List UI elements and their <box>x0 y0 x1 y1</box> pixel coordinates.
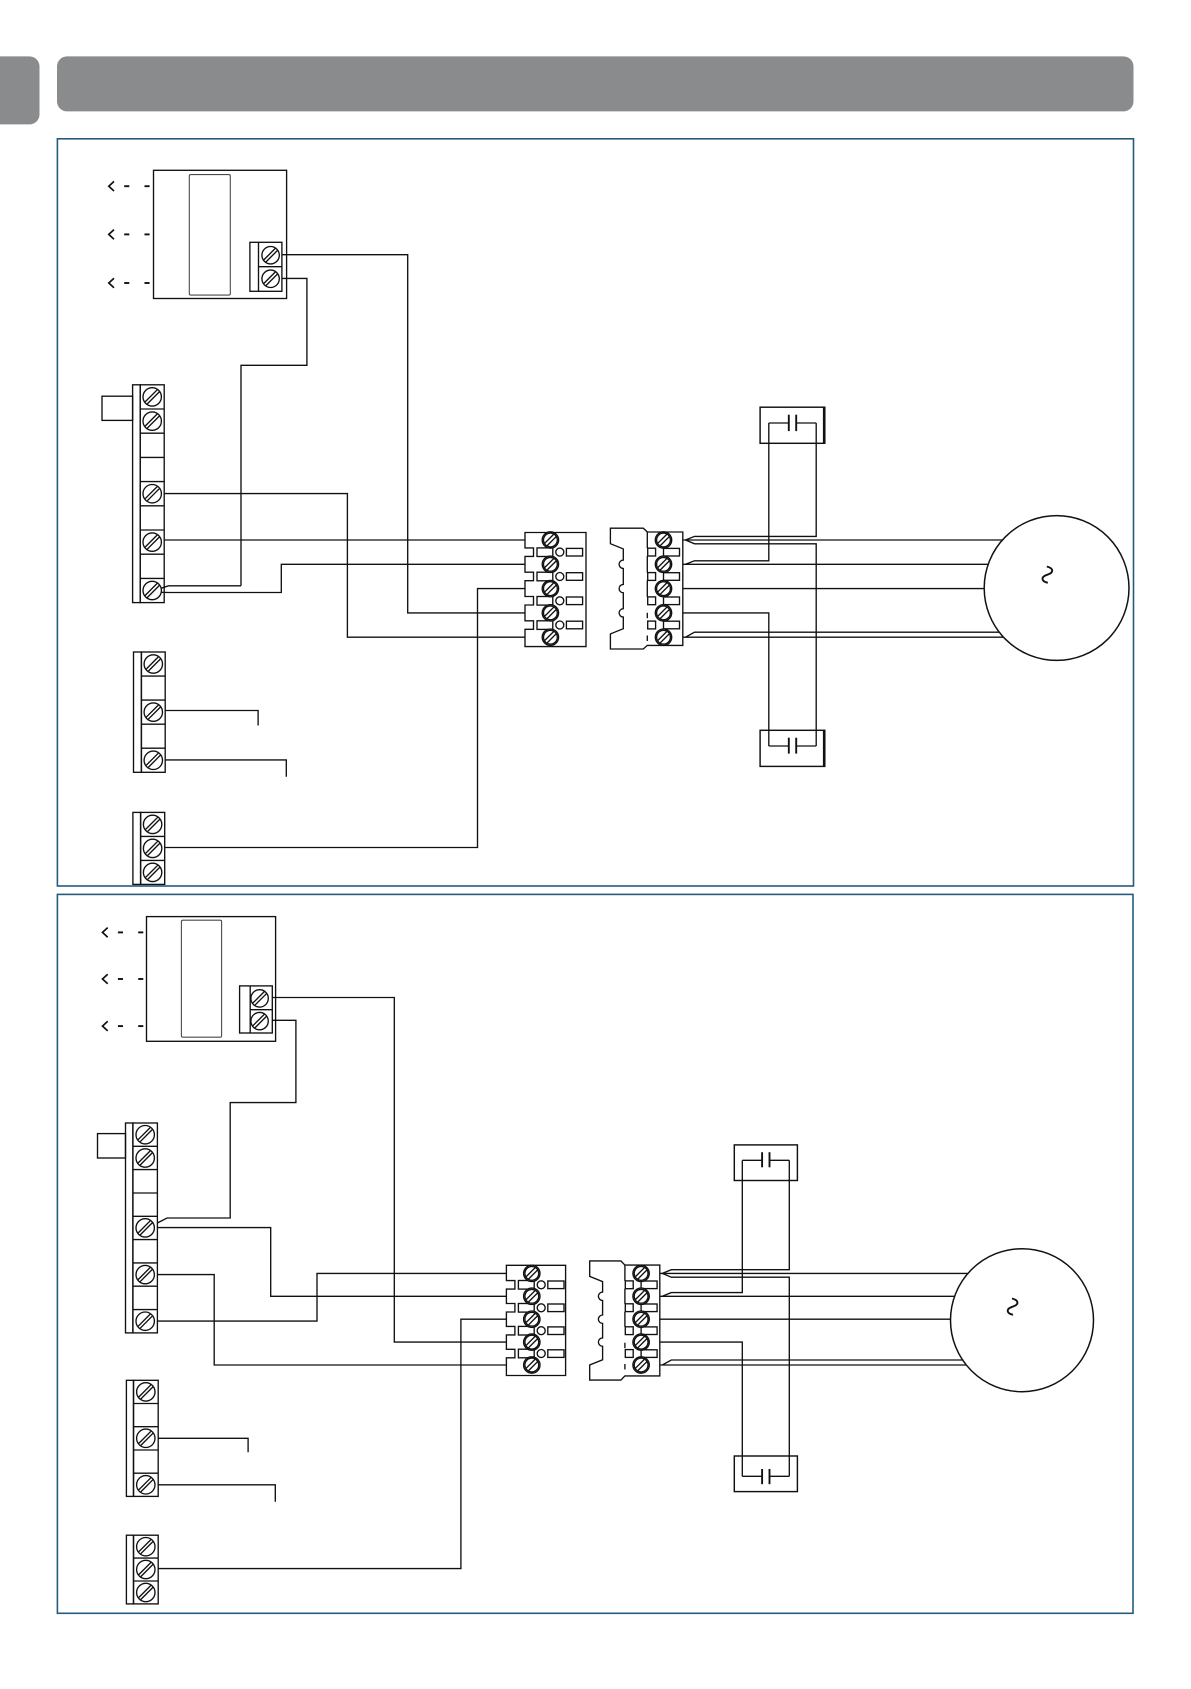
screw terminal X1.7 <box>143 533 161 551</box>
wire stub: X2.3 <box>165 711 258 726</box>
screw terminal A1.1 <box>262 247 279 264</box>
diagram frame 2 <box>57 894 1133 1613</box>
screw terminal X9.5 <box>524 1357 540 1373</box>
terminal strip X6 <box>98 1123 158 1333</box>
capacitor C3 (suppressor) <box>734 1145 797 1181</box>
screw terminal X7.3 <box>137 1429 155 1447</box>
capacitor C2 (suppressor) <box>760 730 825 766</box>
wire: A1 terminal 2 to strip X1 terminal 9 <box>241 278 307 585</box>
terminal strip X3 <box>133 812 165 884</box>
wire: X10 row 5 upper to motor M2 <box>662 1360 963 1365</box>
terminal strip X1 <box>102 385 164 603</box>
screw terminal X6.9 <box>136 1312 154 1330</box>
screw terminal X9.3 <box>524 1311 540 1327</box>
display window of A2 <box>181 920 221 1037</box>
wire: X1.7 to connector X4 row 1 <box>164 539 525 541</box>
wire: X5 row 5 to motor M1 <box>683 636 1004 638</box>
screw terminal X8.2 <box>137 1560 155 1578</box>
wire: X1.9 to connector X4 row 2 <box>161 564 525 592</box>
wire: X5 row 5 upper to motor M1 <box>686 632 1000 637</box>
screw terminal X1.2 <box>143 412 161 430</box>
screw terminal X2.5 <box>144 751 162 769</box>
screw terminal X8.1 <box>137 1538 155 1556</box>
input arrow 2 of A2 <box>103 974 108 984</box>
wire: X1.5 to connector X4 row 5 <box>164 494 525 638</box>
wire: X5 row 3 to motor M1 <box>683 588 984 590</box>
AC symbol in motor M1 <box>1042 567 1052 583</box>
screw terminal X9.1 <box>524 1265 540 1281</box>
wire stub: X7.3 <box>158 1438 248 1452</box>
screw terminal X10.4 <box>633 1334 649 1350</box>
screw terminal A2.2 <box>251 1012 268 1029</box>
connector socket X5 (motor side) <box>610 528 682 649</box>
screw terminal X2.1 <box>144 655 162 673</box>
screw terminal X9.2 <box>524 1288 540 1304</box>
wire: A2 terminal 1 to connector X9 row 4 <box>272 998 506 1343</box>
screw terminal X7.1 <box>137 1383 155 1401</box>
input arrow 3 of A2 <box>103 1021 108 1031</box>
screw terminal X1.9 <box>143 581 161 599</box>
screw terminal A1.2 <box>262 270 279 287</box>
screw terminal X6.1 <box>136 1126 154 1144</box>
screw terminal X5.1 <box>655 532 671 548</box>
AC symbol in motor M2 <box>1008 1299 1018 1315</box>
wire: X10 row 3 to motor M2 <box>660 1318 951 1320</box>
wire: X8.2 to connector X9 row 3 <box>158 1319 506 1568</box>
motor M2 <box>951 1249 1094 1392</box>
screw terminal X10.2 <box>633 1288 649 1304</box>
wire: X10 row 2 to capacitor C3 <box>662 1181 742 1297</box>
screw terminal X4.3 <box>542 580 558 596</box>
wire: X10 row 4 to capacitor C4 <box>660 1342 743 1456</box>
terminal strip X7 <box>126 1380 158 1496</box>
screw terminal X10.5 <box>633 1357 649 1373</box>
screw terminal X4.5 <box>542 629 558 645</box>
control unit A1 (timer/programmer) <box>109 170 287 298</box>
screw terminal X8.3 <box>137 1583 155 1601</box>
wire: X5 row 1 to capacitor C1 <box>686 443 817 540</box>
wire: A2 terminal 2 to strip X6 terminal 5 <box>157 1020 296 1223</box>
capacitor C4 (suppressor) <box>734 1456 797 1492</box>
wire stub: X7.5 <box>158 1485 275 1502</box>
wire: X1.9 to A1 wire junction <box>161 586 241 589</box>
screw terminal X1.1 <box>143 388 161 406</box>
capacitor C1 (suppressor) <box>760 407 825 443</box>
wire: X6.5 to connector X9 row 2 <box>157 1228 506 1297</box>
input arrow 1 of A2 <box>103 928 108 938</box>
screw terminal X4.4 <box>542 605 558 621</box>
wire: X5 row 2 to motor M1 <box>683 563 988 565</box>
screw terminal X10.1 <box>633 1265 649 1281</box>
motor M1 <box>984 516 1129 661</box>
mounting tab of X6 <box>98 1134 126 1158</box>
wire: X5 row 1 to capacitor C2 <box>686 540 817 730</box>
input arrow 3 of A1 <box>109 278 114 288</box>
screw terminal X4.2 <box>542 556 558 572</box>
screw terminal X3.2 <box>143 839 161 857</box>
terminal block of A1 <box>250 242 282 291</box>
screw terminal X9.4 <box>524 1334 540 1350</box>
wire: X6.7 to connector X9 row 5 <box>157 1275 506 1365</box>
screw terminal X5.2 <box>655 556 671 572</box>
connector plug X9 (cable side) <box>506 1265 565 1375</box>
wire: X5 row 2 to capacitor C1 <box>686 443 769 564</box>
wire: A1 terminal 1 to connector X4 row 4 <box>282 255 525 613</box>
connector socket X10 (motor side) <box>590 1261 660 1380</box>
screw terminal X7.5 <box>137 1476 155 1494</box>
screw terminal X10.3 <box>633 1311 649 1327</box>
control unit A2 (timer/programmer) <box>103 917 276 1042</box>
screw terminal X5.5 <box>655 629 671 645</box>
wire: X10 row 1 to motor M2 <box>660 1272 968 1274</box>
mounting tab of X1 <box>102 396 133 420</box>
screw terminal X3.1 <box>143 815 161 833</box>
wire: X5 row 1 to motor M1 <box>683 539 1003 541</box>
display window of A1 <box>189 175 230 296</box>
diagram frame 1 <box>57 139 1133 886</box>
wire: X10 row 1 to capacitor C4 <box>662 1273 789 1456</box>
screw terminal X6.5 <box>136 1219 154 1237</box>
header chapter tab <box>0 56 40 124</box>
terminal strip X8 <box>126 1535 158 1604</box>
input arrow 2 of A1 <box>109 230 114 240</box>
header title bar <box>57 56 1134 111</box>
screw terminal X2.3 <box>144 703 162 721</box>
screw terminal X4.1 <box>542 532 558 548</box>
screw terminal X6.7 <box>136 1265 154 1283</box>
wire: X10 row 5 to motor M2 <box>660 1364 967 1366</box>
input arrow 1 of A1 <box>109 181 114 191</box>
screw terminal X1.5 <box>143 485 161 503</box>
connector plug X4 (cable side) <box>525 532 586 647</box>
terminal strip X2 <box>134 652 166 772</box>
wire: X10 row 1 to capacitor C3 <box>662 1181 789 1274</box>
screw terminal X6.2 <box>136 1149 154 1167</box>
wire: X5 row 4 to capacitor C2 <box>683 613 769 730</box>
wire: X3.2 to connector X4 row 3 <box>165 589 525 848</box>
wire: X10 row 2 to motor M2 <box>660 1295 955 1297</box>
screw terminal X3.3 <box>143 863 161 881</box>
terminal block of A2 <box>240 986 273 1033</box>
screw terminal X5.3 <box>655 580 671 596</box>
wire: X6.9 to connector X9 row 1 <box>157 1273 506 1321</box>
screw terminal A2.1 <box>251 990 268 1007</box>
screw terminal X5.4 <box>655 605 671 621</box>
wire stub: X2.5 <box>165 760 286 777</box>
